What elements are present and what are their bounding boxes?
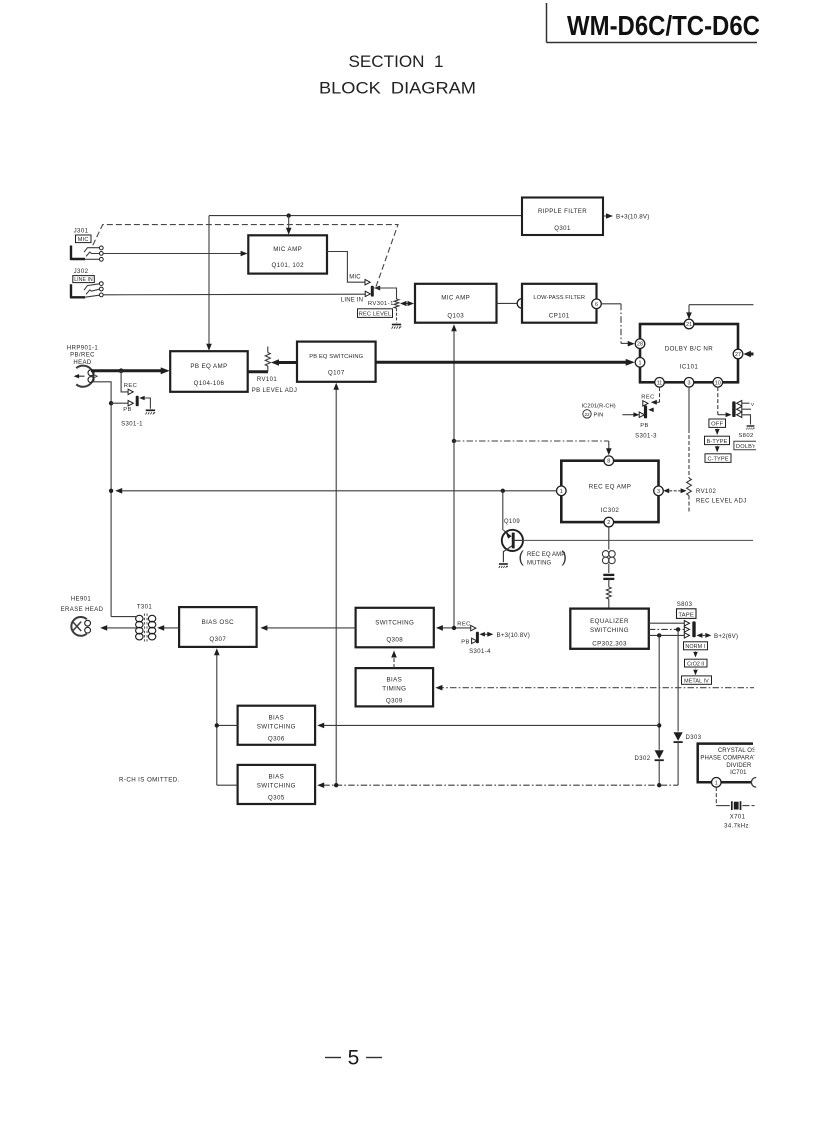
switch S803 slider	[692, 621, 695, 637]
wire Q306 input	[317, 723, 659, 729]
label CrO2 II boxed	[685, 659, 708, 667]
svg-text:MUTING: MUTING	[527, 560, 551, 566]
pin 21 of IC101	[684, 319, 694, 329]
svg-text:LINE IN: LINE IN	[74, 277, 93, 283]
svg-text:NORM I: NORM I	[685, 644, 705, 650]
pin 27 of IC101	[733, 349, 743, 359]
contact S802 bottom	[737, 412, 755, 429]
pin 3 of CP101	[517, 299, 527, 309]
wire bias osc to T301	[157, 625, 179, 631]
svg-text:BIAS: BIAS	[268, 715, 284, 722]
label S803	[677, 602, 693, 608]
svg-text:22: 22	[584, 412, 590, 417]
label S301-3	[635, 434, 657, 440]
svg-text:Q103: Q103	[447, 313, 464, 320]
mic amp Q101,102	[248, 235, 327, 273]
capacitor C302	[603, 564, 614, 579]
label PB S301-1	[123, 407, 132, 413]
heading BLOCK DIAGRAM	[319, 80, 476, 98]
svg-text:IC201(R-CH): IC201(R-CH)	[582, 403, 616, 409]
svg-text:DIVIDER: DIVIDER	[726, 763, 752, 769]
svg-text:LOW-PASS FILTER: LOW-PASS FILTER	[533, 295, 585, 301]
svg-text:B+3(10.8V): B+3(10.8V)	[616, 214, 649, 221]
svg-text:X701: X701	[730, 814, 746, 820]
transistor Q109	[499, 530, 523, 568]
erase head HE901	[71, 617, 90, 636]
svg-text:Q309: Q309	[386, 698, 403, 705]
contact S803 bottom	[684, 633, 689, 638]
wire eq mid row	[649, 628, 685, 630]
pin 2 of IC302	[604, 517, 614, 527]
pin 3 of IC101	[684, 378, 694, 388]
node bottom row junction	[657, 633, 661, 637]
pin 3 of IC302	[654, 486, 664, 496]
node mid row junction	[676, 627, 680, 631]
svg-text:SECTION 1: SECTION 1	[349, 53, 444, 71]
node bias feed junction	[215, 723, 219, 727]
svg-text:3: 3	[657, 489, 660, 495]
diode D303	[674, 732, 683, 785]
head HRP901-1	[74, 366, 98, 387]
inductor L302	[602, 551, 615, 564]
wire rec line into Q103 bottom	[451, 324, 457, 441]
wire pin1 to crystal	[716, 787, 730, 806]
arrow cro2 to metal	[693, 669, 698, 676]
svg-text:PB/REC: PB/REC	[70, 353, 95, 359]
label B+3(10.8V) output	[603, 213, 649, 220]
switch S301-1 slider	[136, 396, 145, 407]
svg-text:SWITCHING: SWITCHING	[375, 619, 414, 626]
svg-text:J301: J301	[74, 228, 89, 235]
label D303	[686, 735, 702, 741]
node pb wire junction	[109, 401, 113, 405]
svg-text:BIAS OSC: BIAS OSC	[202, 619, 235, 626]
wire RV102 wiper to pin3	[663, 488, 686, 493]
wire pb eq amp out thick	[248, 370, 268, 373]
wire arrow into pb eq amp top	[206, 344, 212, 351]
crystal osc divider IC701	[698, 744, 767, 783]
dolby B/C NR IC101	[640, 324, 738, 382]
svg-text:REC EQ AMP: REC EQ AMP	[527, 552, 565, 558]
svg-text:CP302,303: CP302,303	[592, 640, 627, 647]
svg-text:Q307: Q307	[209, 636, 226, 643]
switching Q308	[356, 608, 434, 648]
svg-text:6: 6	[595, 302, 598, 308]
svg-text:Q107: Q107	[328, 370, 345, 377]
wire dashed mic select line	[93, 225, 398, 288]
resistor R302	[606, 579, 611, 609]
pb eq amp Q104-106	[170, 351, 248, 392]
pin 6 of CP101	[592, 299, 602, 309]
bias osc Q307	[179, 607, 257, 647]
jack J302	[71, 282, 104, 299]
pin 1 of IC701	[712, 778, 722, 788]
svg-text:Q308: Q308	[386, 636, 403, 643]
svg-text:METAL IV: METAL IV	[684, 679, 709, 685]
contact S802 top	[737, 401, 755, 408]
wire to rec eq amp pin8	[454, 441, 612, 455]
wire pin1 to pb line	[115, 488, 556, 494]
svg-text:B-TYPE: B-TYPE	[707, 439, 728, 445]
contact PB S301-4	[472, 638, 477, 643]
svg-text:8: 8	[607, 459, 610, 465]
svg-text:REC LEVEL ADJ: REC LEVEL ADJ	[696, 498, 747, 504]
svg-text:ERASE HEAD: ERASE HEAD	[61, 607, 104, 613]
svg-text:BIAS: BIAS	[386, 677, 402, 684]
pb eq switching Q107	[297, 342, 376, 382]
label PB S301-3	[640, 423, 649, 429]
svg-text:IC302: IC302	[601, 507, 620, 514]
svg-text:28: 28	[637, 342, 643, 348]
wire pb eq switching bottom feed	[333, 383, 339, 786]
label PB LEVEL ADJ	[252, 388, 298, 394]
svg-text:PB LEVEL ADJ: PB LEVEL ADJ	[252, 388, 298, 394]
svg-text:PB: PB	[640, 423, 649, 429]
svg-text:LINE IN: LINE IN	[341, 298, 363, 304]
bias switching Q306	[238, 706, 316, 745]
svg-text:21: 21	[686, 322, 692, 328]
switch S802 slider	[732, 401, 735, 417]
svg-text:HRP901-1: HRP901-1	[67, 345, 98, 351]
label MIC at switch	[349, 275, 361, 281]
svg-text:PB: PB	[461, 640, 470, 646]
wire eq bottom row	[649, 634, 685, 636]
svg-text:R-CH IS OMITTED.: R-CH IS OMITTED.	[119, 776, 180, 783]
arrow off to b-type	[715, 429, 720, 435]
pot RV102	[687, 387, 692, 513]
svg-text:REC LEVEL: REC LEVEL	[359, 312, 392, 318]
wire Q309 to Q308 arrow	[391, 651, 397, 669]
svg-text:REC: REC	[641, 395, 654, 401]
label S802	[738, 433, 753, 439]
label T301	[137, 605, 153, 611]
label D302	[635, 756, 651, 762]
svg-text:BIAS: BIAS	[268, 774, 284, 781]
svg-text:MIC AMP: MIC AMP	[441, 294, 470, 301]
label PB S301-4	[461, 640, 470, 646]
svg-text:S301-4: S301-4	[469, 649, 491, 655]
svg-text:PIN: PIN	[594, 413, 604, 419]
svg-text:RV102: RV102	[696, 489, 717, 495]
crystal X701	[732, 801, 755, 810]
svg-text:10: 10	[715, 380, 721, 386]
wire to pb contact	[111, 402, 128, 404]
contact S802 mid	[737, 407, 751, 412]
wire mic amp out to select switch	[327, 252, 365, 283]
svg-text:RV301-1: RV301-1	[368, 301, 394, 307]
label OFF boxed	[709, 419, 726, 428]
svg-text:REC: REC	[124, 383, 137, 389]
wire mic jack to mic amp	[103, 251, 247, 257]
pin 8 of IC302	[604, 456, 614, 466]
wire T301 to erase head	[100, 625, 137, 631]
svg-text:C-TYPE: C-TYPE	[707, 457, 728, 463]
label RV301-1	[368, 301, 394, 307]
svg-text:S301-3: S301-3	[635, 434, 657, 440]
svg-text:1: 1	[639, 360, 642, 366]
node rec select junction	[452, 626, 456, 630]
label X701 34.7kHz	[724, 814, 749, 829]
svg-text:REC EQ AMP: REC EQ AMP	[589, 483, 632, 490]
arrow b-type to c-type	[715, 446, 720, 453]
contact MIC select	[365, 280, 370, 285]
contact S803 mid	[684, 627, 689, 632]
pin 11 of IC101	[655, 378, 665, 388]
label R-CH IS OMITTED	[119, 776, 180, 783]
wire rec junction to Q308	[436, 625, 471, 631]
wire S301-4 B+3	[485, 632, 530, 639]
svg-text:REC: REC	[457, 622, 470, 628]
wire pin6 to dolby pin28	[601, 304, 634, 347]
node Q109 tap	[501, 489, 505, 493]
wire IC201 to PB contact	[622, 412, 639, 417]
pin 1 of IC302	[557, 486, 567, 496]
node head line junction	[119, 368, 124, 373]
jack J301	[71, 246, 104, 262]
svg-text:DOLBY: DOLBY	[736, 444, 756, 450]
wire line-in jack to switch	[103, 293, 365, 296]
transformer T301	[136, 614, 156, 642]
pot RV101	[265, 347, 270, 372]
wire bias osc bottom feed	[214, 648, 238, 785]
contact REC S301-1	[128, 389, 133, 394]
wire eq top row	[649, 622, 685, 624]
label Q109	[504, 519, 521, 525]
wire head to pb eq amp thick	[91, 367, 170, 374]
svg-text:Q305: Q305	[268, 795, 285, 802]
svg-text:5: 5	[348, 1047, 360, 1070]
node Q305 feed junction	[334, 783, 338, 787]
switch S301-4 slider	[476, 632, 485, 643]
svg-text:CP101: CP101	[549, 313, 570, 320]
wire junction down to rec contact	[121, 371, 128, 392]
svg-text:SWITCHING: SWITCHING	[257, 783, 296, 790]
svg-text:D303: D303	[686, 735, 702, 741]
label LINE IN at switch	[341, 298, 363, 304]
node D302 mid junction	[657, 723, 661, 727]
label HRP901-1 PB/REC HEAD	[67, 345, 98, 366]
wire Q109 base line	[523, 539, 753, 541]
wire RV301-1 wiper to mic amp Q103	[400, 301, 414, 306]
label HE901 ERASE HEAD	[61, 597, 104, 613]
svg-text:2: 2	[607, 520, 610, 526]
svg-text:OFF: OFF	[711, 422, 723, 428]
svg-text:DOLBY B/C NR: DOLBY B/C NR	[665, 346, 713, 353]
wire pin11 to rec contact	[651, 387, 660, 405]
wire head line to T301	[111, 616, 137, 618]
svg-text:): )	[562, 549, 567, 566]
node pb line end	[109, 489, 113, 493]
label IC201 note	[582, 403, 616, 418]
wire bias timing input	[435, 685, 754, 691]
contact REC S301-3	[643, 401, 648, 406]
switch S301-2 mic/line slider	[371, 286, 380, 297]
jack J302 label	[73, 268, 95, 283]
pin 10 of IC101	[713, 378, 723, 388]
svg-text:Q104-106: Q104-106	[194, 380, 225, 387]
svg-text:1: 1	[715, 780, 718, 786]
svg-text:Q306: Q306	[268, 736, 285, 743]
label REC S301-4	[457, 622, 470, 628]
wire pin21 up and right	[686, 305, 753, 320]
node top rail junction	[287, 213, 291, 217]
label B-TYPE boxed	[705, 436, 730, 445]
svg-text:B+3(10.8V): B+3(10.8V)	[497, 632, 530, 639]
title WM-D6C/TC-D6C	[567, 10, 760, 41]
node rec eq feed junction	[452, 439, 456, 443]
contact PB S301-3	[639, 412, 644, 417]
svg-text:3: 3	[688, 380, 691, 386]
svg-text:BLOCK DIAGRAM: BLOCK DIAGRAM	[319, 80, 476, 98]
wire D303 column	[677, 629, 679, 731]
wire tap down to Q109	[502, 491, 504, 530]
svg-text:27: 27	[735, 352, 741, 358]
svg-text:HE901: HE901	[71, 597, 92, 603]
contact REC S301-4	[471, 625, 476, 630]
label S301-1	[121, 421, 143, 427]
equalizer switching CP302,303	[570, 609, 649, 649]
svg-text:PB EQ AMP: PB EQ AMP	[190, 363, 227, 370]
wire pin2 down	[608, 527, 610, 550]
wire RV101 wiper to pb eq switching thick	[271, 359, 297, 366]
svg-text:D302: D302	[635, 756, 651, 762]
contact PB S301-1	[128, 401, 133, 406]
wire B+ top rail	[209, 216, 522, 345]
pin stub of IC701	[751, 778, 756, 788]
svg-text:MIC: MIC	[78, 237, 89, 243]
rec eq amp IC302	[561, 461, 658, 522]
wire select common to rec level pot	[374, 288, 396, 299]
svg-text:TIMING: TIMING	[382, 686, 406, 693]
label S301-4	[469, 649, 491, 655]
node D302 bottom junction	[657, 783, 661, 787]
wire Q308 to bias osc	[260, 625, 355, 631]
wire pin10 to S802	[718, 387, 732, 417]
pot RV301-1 REC LEVEL	[392, 299, 402, 329]
contact LINE IN select	[365, 291, 370, 296]
wire D302 column	[658, 635, 660, 749]
wire into mic amp Q101 top	[286, 216, 292, 235]
wire thick pb eq switching to dolby pin1	[376, 359, 635, 366]
bias timing Q309	[356, 668, 434, 706]
contact S803 top	[684, 621, 689, 626]
label RV101	[257, 377, 278, 383]
label REC at S301-3	[641, 395, 654, 401]
pin 28 of IC101	[635, 339, 645, 349]
label RV102	[696, 489, 747, 504]
wire Q305 input	[317, 782, 678, 788]
svg-text:WM-D6C/TC-D6C: WM-D6C/TC-D6C	[567, 10, 760, 41]
svg-text:34.7kHz: 34.7kHz	[724, 823, 749, 829]
svg-text:Q101, 102: Q101, 102	[271, 262, 304, 269]
svg-text:MIC: MIC	[349, 275, 361, 281]
svg-text:1: 1	[560, 489, 563, 495]
wire pin27 output	[743, 351, 753, 357]
svg-text:EQUALIZER: EQUALIZER	[590, 618, 629, 625]
svg-text:IC701: IC701	[730, 770, 747, 776]
svg-text:RIPPLE FILTER: RIPPLE FILTER	[538, 208, 587, 215]
wire rec select vertical	[453, 441, 455, 628]
svg-text:Q109: Q109	[504, 519, 521, 525]
diode D302	[655, 750, 664, 785]
svg-text:MIC AMP: MIC AMP	[273, 246, 302, 253]
svg-text:B+2(6V): B+2(6V)	[714, 633, 738, 640]
svg-text:PB EQ SWITCHING: PB EQ SWITCHING	[309, 354, 363, 360]
wire head lower terminal	[92, 382, 112, 617]
svg-text:S803: S803	[677, 602, 693, 608]
label TAPE boxed	[677, 609, 697, 619]
svg-text:TAPE: TAPE	[678, 612, 694, 618]
wire S301-1 common to ground	[145, 398, 155, 414]
svg-text:11: 11	[657, 380, 663, 386]
bias switching Q305	[238, 765, 316, 804]
arrow norm to cro2	[693, 651, 698, 657]
svg-text:Q301: Q301	[554, 225, 571, 232]
svg-text:(: (	[519, 549, 525, 566]
label NORM I boxed	[684, 642, 708, 650]
svg-text:CrO2 II: CrO2 II	[687, 661, 704, 667]
svg-text:SWITCHING: SWITCHING	[257, 724, 296, 731]
label C-TYPE boxed	[705, 454, 731, 463]
svg-text:PB: PB	[123, 407, 132, 413]
label rec eq amp muting	[519, 549, 567, 566]
wire Q103 to pin 3	[497, 302, 518, 304]
title bracket line	[547, 3, 758, 43]
svg-text:J302: J302	[74, 268, 89, 275]
svg-text:S802: S802	[738, 433, 753, 439]
svg-text:IC101: IC101	[680, 364, 699, 371]
jack J301 label	[74, 228, 91, 244]
label REC S301-1	[124, 383, 137, 389]
pin 1 of IC101	[635, 358, 645, 368]
mic amp Q103	[415, 284, 497, 323]
svg-text:T301: T301	[137, 605, 153, 611]
ripple filter Q301	[522, 198, 603, 236]
label REC LEVEL boxed	[358, 309, 393, 318]
low-pass filter CP101	[522, 284, 597, 323]
label METAL IV boxed	[682, 676, 712, 685]
svg-text:SWITCHING: SWITCHING	[590, 627, 629, 634]
wire S803 common B+2	[696, 633, 738, 640]
heading SECTION 1	[349, 53, 444, 71]
switch S301-3 slider	[644, 405, 654, 418]
page number 5	[325, 1047, 382, 1070]
svg-text:S301-1: S301-1	[121, 421, 143, 427]
label DOLBY boxed	[734, 441, 756, 450]
svg-text:RV101: RV101	[257, 377, 278, 383]
